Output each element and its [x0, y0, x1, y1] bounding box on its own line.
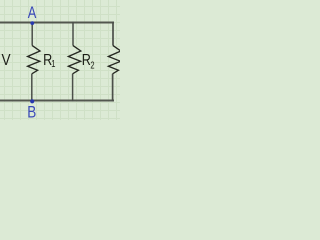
wire bottom rail node B — [0, 99, 114, 101]
svg-text:A: A — [28, 4, 37, 22]
wire R1 top lead — [31, 23, 33, 46]
resistor R3 — [108, 46, 120, 74]
wire R1 bottom lead — [31, 74, 33, 101]
resistor R1 — [28, 46, 40, 74]
wire R3 bottom lead with corner to bottom rail — [112, 74, 114, 102]
node B junction dot — [30, 99, 34, 103]
background — [0, 0, 120, 120]
svg-text:R: R — [82, 51, 91, 69]
node A junction dot — [30, 21, 34, 25]
svg-text:V: V — [1, 52, 10, 69]
svg-text:2: 2 — [90, 59, 94, 70]
svg-text:B: B — [27, 103, 36, 120]
wire top rail node A — [0, 21, 114, 23]
wire R2 bottom lead — [72, 74, 74, 102]
wire R2 top lead — [72, 22, 74, 46]
wire R3 top lead with corner from top rail — [112, 22, 114, 46]
svg-text:1: 1 — [51, 58, 55, 69]
grid — [0, 0, 120, 120]
resistor R2 — [68, 46, 80, 74]
